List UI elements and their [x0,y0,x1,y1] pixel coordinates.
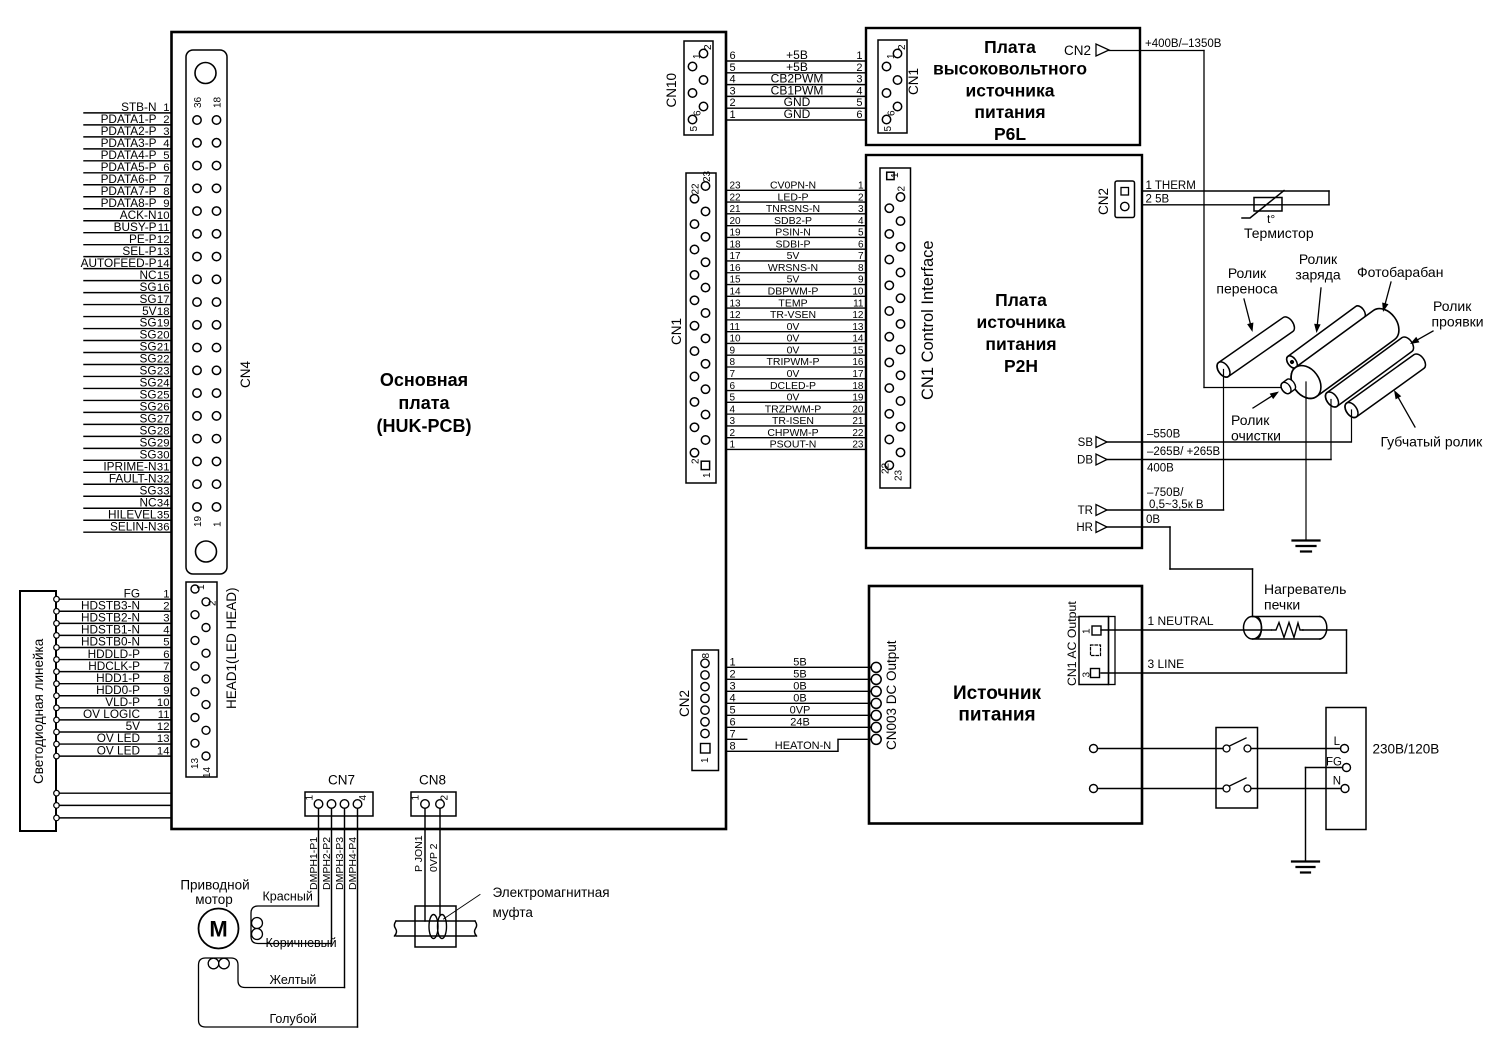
svg-text:Фотобарабан: Фотобарабан [1357,264,1443,280]
svg-text:P2H: P2H [1004,356,1038,376]
svg-text:2: 2 [440,795,451,801]
svg-text:8: 8 [701,653,712,659]
svg-text:6: 6 [693,110,704,116]
svg-text:13: 13 [157,733,170,745]
svg-text:6: 6 [730,716,736,728]
svg-text:8: 8 [163,673,169,685]
svg-text:LED-P: LED-P [778,191,809,203]
svg-text:6: 6 [163,162,169,174]
svg-text:DMPH4-P4: DMPH4-P4 [347,837,359,890]
svg-text:8: 8 [730,740,736,752]
svg-text:DCLED-P: DCLED-P [770,380,816,392]
svg-text:SB: SB [1078,437,1094,449]
svg-text:10: 10 [157,697,170,709]
svg-text:1: 1 [163,588,169,600]
svg-text:21: 21 [852,416,864,427]
svg-text:10: 10 [852,287,864,298]
svg-text:25: 25 [157,390,170,402]
svg-text:CN1 Control Interface: CN1 Control Interface [919,240,937,400]
svg-text:35: 35 [157,509,170,521]
svg-text:13: 13 [190,757,201,769]
svg-text:14: 14 [157,745,170,757]
svg-text:+400В/–1350В: +400В/–1350В [1145,38,1222,50]
svg-text:9: 9 [163,198,169,210]
svg-text:0VP 2: 0VP 2 [428,843,440,872]
svg-text:–265В/ +265В: –265В/ +265В [1147,446,1221,458]
svg-text:6: 6 [858,239,864,250]
svg-text:источника: источника [976,312,1065,332]
svg-text:22: 22 [852,428,864,439]
svg-text:PSIN-N: PSIN-N [775,227,811,239]
svg-text:TRZPWM-P: TRZPWM-P [765,403,822,415]
svg-text:Ролик: Ролик [1228,265,1267,281]
svg-text:7: 7 [163,174,169,186]
svg-text:Основная: Основная [380,370,468,390]
svg-text:источника: источника [965,80,1054,100]
svg-text:3: 3 [858,204,864,215]
svg-text:Приводной: Приводной [180,878,249,893]
svg-text:TNRSNS-N: TNRSNS-N [766,203,820,215]
svg-text:10: 10 [157,210,170,222]
svg-text:17: 17 [157,294,170,306]
svg-text:1: 1 [213,521,224,527]
svg-text:очистки: очистки [1231,428,1281,444]
svg-text:GND: GND [784,107,811,121]
svg-text:14: 14 [730,287,742,298]
svg-text:13: 13 [852,322,864,333]
svg-text:0V: 0V [787,392,800,404]
svg-text:6: 6 [887,110,898,116]
svg-text:мотор: мотор [195,892,233,907]
svg-text:2: 2 [856,62,862,74]
svg-text:CN003 DC Output: CN003 DC Output [884,640,899,750]
svg-text:SDBI-P: SDBI-P [775,238,810,250]
svg-text:HR: HR [1076,522,1093,534]
svg-text:1: 1 [856,50,862,62]
svg-text:2: 2 [858,192,864,203]
svg-text:5: 5 [689,126,700,132]
svg-text:2: 2 [691,458,702,464]
svg-text:TR-VSEN: TR-VSEN [770,309,816,321]
svg-text:1: 1 [730,109,736,121]
svg-text:SDB2-P: SDB2-P [774,215,812,227]
svg-text:15: 15 [157,270,170,282]
svg-text:4: 4 [358,795,369,801]
svg-text:34: 34 [157,497,170,509]
svg-text:Термистор: Термистор [1244,225,1314,241]
svg-text:L: L [1334,736,1341,748]
svg-text:1 NEUTRAL: 1 NEUTRAL [1148,614,1214,628]
svg-text:Ролик: Ролик [1299,251,1338,267]
svg-text:CN1: CN1 [906,68,921,95]
svg-text:N: N [1333,776,1341,788]
svg-text:3: 3 [856,74,862,86]
svg-text:2 5B: 2 5B [1146,193,1170,205]
svg-text:CV0PN-N: CV0PN-N [770,180,816,192]
svg-text:CN8: CN8 [419,773,446,788]
svg-text:CN10: CN10 [664,73,679,108]
svg-text:6: 6 [730,381,736,392]
svg-text:3: 3 [730,416,736,427]
svg-text:12: 12 [157,721,170,733]
svg-text:32: 32 [157,473,170,485]
svg-text:0V: 0V [787,368,800,380]
svg-text:1 THERM: 1 THERM [1146,180,1196,192]
svg-text:9: 9 [163,685,169,697]
svg-text:Нагреватель: Нагреватель [1264,581,1346,597]
svg-text:4: 4 [730,404,736,415]
svg-text:9: 9 [730,345,736,356]
svg-text:переноса: переноса [1216,281,1277,297]
svg-text:CN1: CN1 [669,318,684,345]
svg-text:Источник: Источник [953,683,1042,704]
svg-text:(HUK-PCB): (HUK-PCB) [377,416,472,436]
svg-text:19: 19 [193,515,204,527]
svg-text:2: 2 [730,428,736,439]
svg-text:–750В/: –750В/ [1147,487,1184,499]
svg-text:20: 20 [730,216,742,227]
svg-text:28: 28 [157,426,170,438]
svg-text:0В: 0В [1146,514,1160,526]
svg-text:33: 33 [157,485,170,497]
svg-text:M: M [209,917,227,942]
svg-text:26: 26 [157,402,170,414]
svg-text:24B: 24B [790,716,810,728]
svg-text:1: 1 [305,795,316,801]
svg-text:CN2: CN2 [1064,43,1091,58]
svg-text:P6L: P6L [994,124,1026,144]
svg-text:15: 15 [730,275,742,286]
svg-text:11: 11 [853,298,864,309]
svg-text:HEAD1(LED HEAD): HEAD1(LED HEAD) [224,587,239,709]
svg-text:22: 22 [730,192,742,203]
svg-text:29: 29 [157,438,170,450]
svg-text:14: 14 [852,334,864,345]
svg-text:3: 3 [730,85,736,97]
svg-text:5B: 5B [793,656,806,668]
svg-text:питания: питания [985,334,1056,354]
svg-text:1: 1 [730,440,736,451]
svg-text:12: 12 [157,234,170,246]
svg-text:0B: 0B [793,680,806,692]
svg-text:питания: питания [958,705,1035,726]
svg-text:2: 2 [703,44,714,50]
svg-text:Плата: Плата [984,37,1036,57]
svg-text:WRSNS-N: WRSNS-N [768,262,818,274]
svg-text:1: 1 [196,584,207,590]
svg-text:4: 4 [163,625,169,637]
svg-text:18: 18 [213,96,224,108]
svg-text:23: 23 [730,181,742,192]
svg-text:31: 31 [157,462,170,474]
svg-text:23: 23 [702,170,713,182]
svg-text:10: 10 [730,334,742,345]
svg-text:питания: питания [974,102,1045,122]
svg-text:1: 1 [411,795,422,801]
svg-text:Ролик: Ролик [1433,298,1472,314]
svg-text:13: 13 [157,246,170,258]
svg-text:19: 19 [852,393,864,404]
svg-text:23: 23 [157,366,170,378]
svg-text:22: 22 [157,354,170,366]
svg-text:печки: печки [1264,597,1300,613]
svg-text:17: 17 [730,251,742,262]
svg-text:3: 3 [163,126,169,138]
svg-text:5: 5 [730,62,736,74]
svg-text:SELIN-N: SELIN-N [110,519,157,533]
svg-text:3: 3 [163,613,169,625]
svg-text:7: 7 [730,728,736,740]
svg-text:18: 18 [157,306,170,318]
svg-text:1: 1 [702,472,713,478]
svg-text:2: 2 [730,97,736,109]
svg-text:15: 15 [852,345,864,356]
svg-text:36: 36 [157,521,170,533]
svg-text:30: 30 [157,450,170,462]
svg-text:0V: 0V [787,344,800,356]
svg-text:230В/120В: 230В/120В [1373,742,1440,757]
svg-text:8: 8 [858,263,864,274]
svg-text:муфта: муфта [493,905,534,920]
svg-text:Голубой: Голубой [270,1012,317,1026]
svg-text:CN2: CN2 [1096,188,1111,215]
svg-text:22: 22 [881,462,892,474]
svg-text:DMPH3-P3: DMPH3-P3 [334,837,346,890]
svg-text:2: 2 [897,186,908,192]
svg-text:6: 6 [856,109,862,121]
svg-text:7: 7 [163,661,169,673]
svg-text:400В: 400В [1147,463,1174,475]
svg-text:8: 8 [730,357,736,368]
svg-text:–550В: –550В [1147,429,1181,441]
svg-text:Плата: Плата [995,290,1047,310]
svg-text:TEMP: TEMP [778,297,807,309]
svg-text:4: 4 [856,85,862,97]
svg-text:2: 2 [208,600,219,606]
svg-text:23: 23 [852,440,864,451]
svg-text:1: 1 [886,53,897,59]
svg-text:5: 5 [858,228,864,239]
svg-text:0B: 0B [793,692,806,704]
svg-text:5V: 5V [787,250,800,262]
svg-text:12: 12 [852,310,864,321]
svg-text:2: 2 [730,668,736,680]
svg-text:19: 19 [730,228,742,239]
svg-text:OV LED: OV LED [97,743,140,757]
svg-text:18: 18 [730,239,742,250]
svg-text:5: 5 [883,126,894,132]
svg-text:11: 11 [158,222,170,234]
svg-text:27: 27 [157,414,170,426]
svg-text:4: 4 [163,138,169,150]
svg-text:TR-ISEN: TR-ISEN [772,415,814,427]
svg-text:CN7: CN7 [328,773,355,788]
svg-text:4: 4 [730,74,736,86]
svg-text:8: 8 [163,186,169,198]
svg-text:11: 11 [730,322,741,333]
svg-text:CN1 AC Output: CN1 AC Output [1065,601,1079,686]
svg-text:CN2: CN2 [677,690,692,717]
svg-text:DB: DB [1077,455,1093,467]
svg-text:3: 3 [730,680,736,692]
svg-text:16: 16 [852,357,864,368]
svg-text:0V: 0V [787,333,800,345]
svg-text:21: 21 [157,342,170,354]
svg-text:высоковольтного: высоковольтного [933,59,1087,79]
svg-text:0VP: 0VP [790,704,811,716]
svg-text:Электромагнитная: Электромагнитная [493,885,610,900]
svg-text:Светодиодная линейка: Светодиодная линейка [31,638,46,784]
svg-text:18: 18 [852,381,864,392]
svg-text:7: 7 [858,251,864,262]
svg-text:HEATON-N: HEATON-N [775,740,831,752]
svg-text:CN4: CN4 [238,361,253,388]
svg-text:2: 2 [163,114,169,126]
svg-text:заряда: заряда [1295,267,1341,283]
svg-text:1: 1 [692,53,703,59]
svg-text:5: 5 [163,150,169,162]
svg-text:3: 3 [1082,672,1093,678]
svg-text:0V: 0V [787,321,800,333]
svg-text:Ролик: Ролик [1231,412,1270,428]
svg-text:DMPH1-P1: DMPH1-P1 [308,837,320,890]
svg-text:3 LINE: 3 LINE [1148,657,1185,671]
svg-text:CHPWM-P: CHPWM-P [767,427,818,439]
svg-text:12: 12 [730,310,742,321]
svg-text:TRIPWM-P: TRIPWM-P [766,356,819,368]
svg-text:4: 4 [858,216,864,227]
svg-text:2: 2 [897,44,908,50]
svg-text:Коричневый: Коричневый [266,936,337,950]
svg-text:TR: TR [1078,505,1093,517]
svg-text:5: 5 [730,704,736,716]
svg-text:1: 1 [700,757,711,763]
svg-text:5V: 5V [787,274,800,286]
svg-text:20: 20 [852,404,864,415]
svg-text:5: 5 [730,393,736,404]
svg-text:5B: 5B [793,668,806,680]
svg-text:14: 14 [202,766,213,778]
svg-text:Красный: Красный [263,890,313,904]
svg-text:1: 1 [163,102,169,114]
svg-text:проявки: проявки [1432,314,1484,330]
svg-text:24: 24 [157,378,170,390]
svg-text:13: 13 [730,298,742,309]
svg-text:16: 16 [730,263,742,274]
svg-text:4: 4 [730,692,736,704]
svg-text:22: 22 [691,183,702,195]
svg-text:16: 16 [157,282,170,294]
svg-text:20: 20 [157,330,170,342]
svg-text:t°: t° [1267,212,1275,226]
svg-text:2: 2 [163,600,169,612]
svg-text:11: 11 [158,709,170,721]
svg-text:плата: плата [398,393,450,413]
svg-text:9: 9 [858,275,864,286]
svg-text:PSOUT-N: PSOUT-N [770,439,817,451]
svg-text:1: 1 [1082,628,1093,634]
svg-text:DBPWM-P: DBPWM-P [768,286,819,298]
svg-text:23: 23 [894,469,905,481]
svg-text:7: 7 [730,369,736,380]
svg-text:P JON1: P JON1 [413,835,425,872]
svg-text:Желтый: Желтый [270,973,317,987]
svg-text:1: 1 [730,656,736,668]
svg-text:Губчатый ролик: Губчатый ролик [1381,434,1484,450]
svg-text:6: 6 [730,50,736,62]
svg-text:19: 19 [157,318,170,330]
svg-text:36: 36 [193,96,204,108]
svg-text:0,5~3,5к В: 0,5~3,5к В [1149,499,1204,511]
svg-text:5: 5 [856,97,862,109]
svg-text:DMPH2-P2: DMPH2-P2 [321,837,333,890]
svg-text:6: 6 [163,649,169,661]
svg-text:17: 17 [852,369,864,380]
svg-text:1: 1 [858,181,864,192]
svg-text:5: 5 [163,637,169,649]
svg-text:21: 21 [730,204,742,215]
svg-text:FG: FG [1326,757,1342,769]
svg-text:14: 14 [157,258,170,270]
svg-text:1: 1 [890,172,901,178]
